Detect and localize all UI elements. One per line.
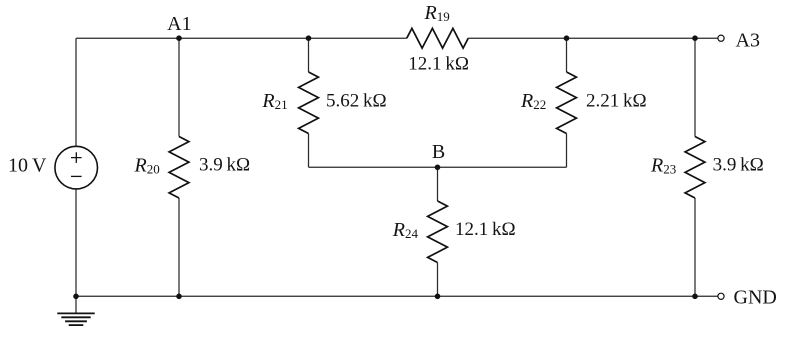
svg-text:5.62 kΩ: 5.62 kΩ: [326, 90, 387, 111]
svg-text:GND: GND: [734, 287, 777, 309]
svg-text:A1: A1: [167, 13, 191, 35]
svg-text:2.21 kΩ: 2.21 kΩ: [586, 90, 647, 111]
svg-text:10 V: 10 V: [8, 155, 47, 177]
svg-text:12.1 kΩ: 12.1 kΩ: [455, 219, 516, 240]
svg-text:B: B: [432, 141, 445, 163]
svg-text:12.1 kΩ: 12.1 kΩ: [408, 54, 469, 75]
svg-text:3.9 kΩ: 3.9 kΩ: [713, 154, 764, 175]
svg-text:A3: A3: [736, 29, 760, 51]
svg-text:3.9 kΩ: 3.9 kΩ: [199, 154, 250, 175]
